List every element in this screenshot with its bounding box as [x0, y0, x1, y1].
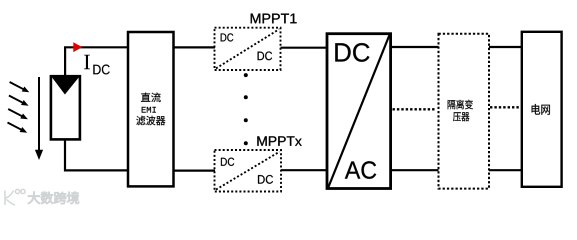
label I_DC [84, 55, 90, 69]
label 压器 [453, 112, 469, 121]
DC EMI filter block [128, 32, 174, 186]
wire: PV plus terminal to EMI filter (top) [65, 47, 128, 78]
watermark text [28, 192, 79, 204]
wire: MPPT1 to inverter [281, 47, 329, 49]
DC/AC inverter block [327, 34, 391, 189]
ellipsis dots [244, 73, 248, 77]
dotted line: inverter to transformer [393, 108, 437, 110]
wire: EMI filter to MPPT1 [174, 46, 216, 48]
wire: inverter to transformer (top) [391, 46, 439, 48]
light ray arrow 2 [9, 96, 25, 104]
light ray arrow 1 [10, 82, 26, 90]
current direction arrow (red) [73, 42, 82, 52]
grid block [522, 32, 562, 187]
inverter diagonal [328, 35, 389, 187]
PV cell (photovoltaic source) [51, 76, 80, 139]
MPPTx diagonal [216, 152, 280, 190]
wire: PV minus terminal to EMI filter (bottom) [65, 139, 128, 170]
watermark logo [5, 189, 25, 205]
label 电网 [532, 104, 550, 115]
MPPT1 label DC input [221, 33, 234, 41]
PV current arrow (long down arrow) [35, 77, 43, 160]
label 直流 [141, 93, 161, 103]
wire: transformer to grid (bottom) [489, 169, 522, 171]
wire: transformer to grid (top) [489, 46, 522, 48]
MPPTx label DC output [258, 175, 273, 184]
inverter label AC [345, 161, 376, 179]
wire: inverter to transformer (bottom) [391, 169, 439, 171]
light ray arrow 4 [8, 123, 24, 131]
MPPT1 DC-DC converter dashed box [215, 28, 281, 70]
wire: EMI filter to MPPTx [174, 170, 216, 172]
MPPTx DC-DC converter dashed box [215, 150, 282, 192]
MPPT1 label DC output [258, 52, 273, 61]
light ray arrow 3 [8, 109, 24, 117]
label MPPT1 [251, 14, 297, 24]
wire: MPPTx to inverter [281, 169, 328, 171]
MPPT1 diagonal [216, 29, 279, 68]
inverter label DC [335, 43, 369, 62]
PV cell diode triangle [52, 77, 79, 94]
dotted line: transformer to grid [490, 106, 521, 108]
label MPPTx [257, 136, 301, 145]
isolation transformer dashed box [439, 34, 490, 189]
label 滤波器 [136, 116, 165, 126]
MPPTx label DC input [221, 158, 234, 166]
label 隔离变 [448, 100, 473, 110]
label EMI [142, 107, 156, 113]
